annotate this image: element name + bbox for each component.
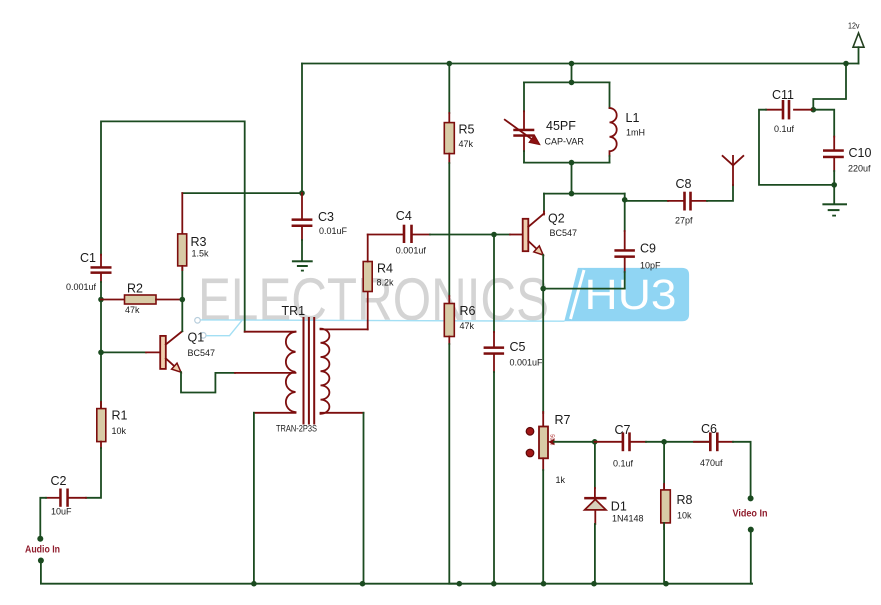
wire R8 bottom to ground rail	[663, 523, 665, 584]
svg-text:TRAN-2P3S: TRAN-2P3S	[276, 424, 317, 434]
wire rail to R5	[448, 64, 450, 114]
antenna AE1	[723, 156, 744, 185]
wire C1 node down to R1	[100, 352, 102, 409]
wire C5 bottom to ground rail	[493, 372, 495, 584]
svg-text:220uf: 220uf	[848, 164, 871, 174]
wire Q1 base	[98, 350, 160, 356]
svg-text:1N4148: 1N4148	[612, 514, 644, 524]
wire Q1 collector up to R3 node	[180, 268, 186, 331]
wire TR1 secondary top to R4 bottom	[367, 292, 369, 329]
wire C1 bottom to R2/R1 node	[98, 282, 104, 352]
capacitor C2	[46, 474, 72, 517]
capacitor C9	[614, 194, 661, 289]
svg-text:47k: 47k	[460, 321, 475, 331]
wire C7 to R8/C6 node	[646, 439, 667, 445]
capacitor C3	[292, 193, 348, 240]
svg-text:R2: R2	[127, 282, 143, 296]
svg-text:R7: R7	[555, 413, 571, 427]
capacitor CV1 45PF variable	[505, 82, 585, 162]
capacitor C10	[823, 137, 871, 174]
potentiometer R7	[526, 412, 595, 485]
svg-text:C1: C1	[80, 251, 96, 265]
svg-text:L1: L1	[626, 111, 640, 125]
svg-text:D1: D1	[611, 500, 627, 514]
wire R1 bottom to C2	[86, 448, 101, 498]
svg-text:Audio In: Audio In	[25, 544, 60, 556]
resistor R2	[101, 282, 182, 316]
wire C10 bottom node to ground	[831, 171, 837, 203]
svg-text:1k: 1k	[556, 475, 566, 485]
wire wiper node down to D1	[594, 442, 596, 497]
wire bottom ground rail	[251, 581, 752, 587]
capacitor C5	[484, 332, 543, 372]
svg-text:R5: R5	[459, 123, 475, 137]
wire R7 wiper node	[592, 439, 598, 445]
svg-text:R1: R1	[112, 409, 128, 423]
svg-text:10pF: 10pF	[640, 261, 661, 271]
wire Audio In lower terminal to ground rail	[41, 561, 254, 584]
svg-text:R4: R4	[377, 262, 393, 276]
wire Q1 emitter to TR1 center tap	[181, 372, 235, 392]
svg-text:BC547: BC547	[188, 348, 216, 358]
svg-text:0.001uf: 0.001uf	[396, 246, 427, 256]
resistor R5	[444, 113, 474, 163]
wire rail to tank top	[569, 64, 575, 86]
wire top supply rail	[302, 61, 859, 67]
svg-text:10uF: 10uF	[51, 507, 72, 517]
svg-text:C11: C11	[772, 88, 794, 102]
node Audio In port	[25, 536, 60, 564]
wire C3 top branch from rail	[182, 64, 305, 196]
svg-text:0.001uf: 0.001uf	[66, 282, 97, 292]
svg-text:45PF: 45PF	[546, 119, 576, 133]
svg-text:C7: C7	[615, 423, 631, 437]
svg-text:10k: 10k	[112, 426, 127, 436]
diode D1 1N4148	[584, 497, 643, 524]
svg-text:C5: C5	[510, 340, 526, 354]
svg-text:ELECTRONICS: ELECTRONICS	[198, 266, 549, 333]
capacitor C1	[66, 251, 112, 292]
resistor R4	[363, 235, 394, 292]
svg-text:HU3: HU3	[585, 271, 677, 319]
svg-text:C9: C9	[640, 242, 656, 256]
svg-text:1.5k: 1.5k	[192, 249, 210, 259]
svg-text:TR1: TR1	[282, 304, 306, 318]
capacitor C11	[766, 88, 813, 134]
svg-text:BC547: BC547	[550, 228, 578, 238]
svg-text:C4: C4	[396, 209, 412, 223]
wire R6 bottom to ground rail	[449, 344, 459, 584]
svg-text:0.001uF: 0.001uF	[510, 358, 544, 368]
wire C4 to Q2 base	[430, 232, 523, 238]
transformer TR1	[245, 304, 368, 434]
wire tank bottom	[524, 160, 610, 166]
svg-text:C6: C6	[701, 422, 717, 436]
wire TR1 secondary bottom to ground rail	[363, 413, 365, 584]
svg-text:R3: R3	[191, 235, 207, 249]
wire C11 node to C10 top	[813, 110, 834, 137]
ground under C3	[292, 260, 313, 271]
transistor Q2	[523, 212, 577, 256]
wire D1 anode to ground rail	[594, 524, 596, 584]
wire tank bottom to Q2 collector node	[544, 163, 625, 212]
wire Q2 base node down to C5	[493, 235, 495, 333]
wire Q2 emitter node down to R7	[542, 289, 544, 413]
svg-text:Q1: Q1	[188, 331, 205, 345]
wire C6 to Video In terminal	[733, 442, 751, 499]
svg-text:C10: C10	[849, 146, 872, 160]
wire Q2 collector node to C8	[625, 200, 668, 202]
svg-text:R6: R6	[460, 304, 476, 318]
capacitor C4	[368, 209, 430, 256]
svg-text:8.2k: 8.2k	[377, 278, 395, 288]
svg-text:C8: C8	[676, 177, 692, 191]
resistor R1	[97, 402, 128, 448]
svg-text:47k: 47k	[125, 305, 140, 315]
wire Video In lower terminal to ground rail	[751, 530, 752, 584]
node VCC 12v supply arrow	[848, 21, 864, 64]
svg-text:0.01uF: 0.01uF	[319, 226, 348, 236]
resistor R8	[661, 484, 693, 529]
wire Q2 emitter node	[540, 255, 624, 291]
capacitor C7	[595, 423, 646, 469]
svg-text:12v: 12v	[848, 21, 860, 31]
wire rail branch to C11/C10 node	[811, 64, 847, 113]
wire R7 bottom to ground rail	[542, 470, 544, 584]
wire node down to R8	[663, 442, 665, 490]
wire C8 to antenna	[707, 185, 733, 201]
wire TR1 primary bottom to ground rail	[253, 413, 255, 584]
svg-text:47k: 47k	[459, 139, 474, 149]
resistor R3	[178, 193, 209, 270]
wire C1 top to TR1 primary top (feedback)	[101, 121, 245, 331]
wire R5 bottom to R6 top	[448, 163, 450, 296]
svg-text:Q2: Q2	[548, 212, 565, 226]
svg-text:1mH: 1mH	[626, 128, 645, 138]
ground under C10	[822, 203, 847, 216]
svg-text:C2: C2	[51, 474, 67, 488]
capacitor C8	[668, 177, 707, 226]
resistor R6	[444, 296, 475, 344]
node Video In port	[733, 495, 768, 532]
svg-text:Video In: Video In	[733, 508, 768, 520]
inductor L1	[610, 82, 646, 162]
svg-text:0.1uf: 0.1uf	[774, 124, 795, 134]
svg-text:10k: 10k	[677, 511, 692, 521]
svg-text:C3: C3	[318, 210, 334, 224]
svg-text:470uf: 470uf	[700, 458, 723, 468]
wire C2 left to Audio In terminal	[40, 498, 46, 539]
svg-text:27pf: 27pf	[675, 216, 693, 226]
svg-text:R8: R8	[677, 493, 693, 507]
svg-text:0.1uf: 0.1uf	[613, 459, 634, 469]
wire tank top	[524, 81, 610, 83]
capacitor C6	[664, 422, 733, 468]
svg-text:CAP-VAR: CAP-VAR	[545, 137, 585, 147]
transistor Q1	[160, 331, 215, 373]
wire C3 to ground	[301, 240, 303, 260]
wire C11 left loop to C10 bottom	[759, 110, 834, 185]
